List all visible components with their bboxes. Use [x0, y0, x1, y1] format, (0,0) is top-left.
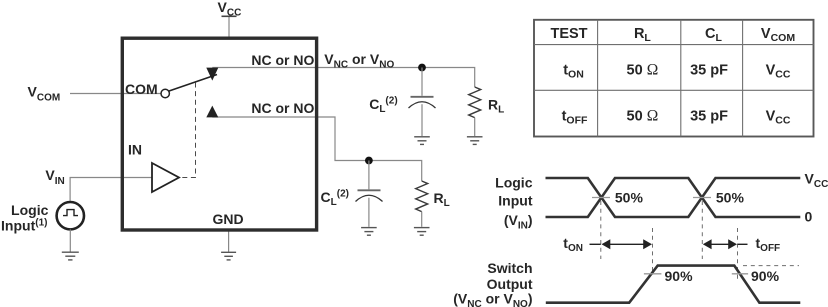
junction node top: [418, 64, 426, 72]
svg-text:90%: 90%: [665, 268, 694, 284]
switch output waveform: [546, 266, 801, 303]
resistor RL upper: [469, 87, 481, 118]
svg-text:35 pF: 35 pF: [690, 63, 728, 79]
wire source to ground: [69, 229, 71, 251]
svg-text:Logic: Logic: [495, 175, 533, 191]
svg-text:50%: 50%: [716, 189, 745, 205]
svg-text:(VNC or VNO): (VNC or VNO): [453, 291, 532, 307]
wire VIN to buffer: [70, 178, 152, 201]
logic input waveform line B: [546, 178, 801, 217]
svg-text:RL: RL: [434, 190, 450, 209]
NO contact triangle: [206, 106, 218, 118]
wire VCOM to COM pin: [70, 93, 161, 95]
svg-text:VIN: VIN: [45, 167, 64, 187]
table column dividers: [598, 20, 743, 137]
svg-text:tON: tON: [563, 235, 583, 254]
90% tick fall: [732, 273, 748, 275]
svg-text:CL(2): CL(2): [369, 96, 397, 116]
svg-text:VCC: VCC: [766, 63, 791, 81]
capacitor CL lower wire: [368, 161, 370, 190]
buffer amplifier: [152, 163, 179, 192]
svg-text:IN: IN: [128, 142, 142, 158]
svg-text:VCC: VCC: [218, 0, 242, 19]
NC contact triangle: [206, 68, 218, 81]
svg-text:tOFF: tOFF: [562, 108, 588, 126]
svg-text:Input: Input: [498, 193, 533, 209]
svg-text:CL: CL: [705, 26, 722, 44]
dashed line tOFF end: [737, 228, 739, 279]
svg-text:50 Ω: 50 Ω: [627, 62, 659, 79]
dashed line tON end: [652, 228, 654, 275]
junction node bottom: [365, 157, 373, 165]
svg-text:0: 0: [805, 208, 813, 224]
dashed line crossing2: [701, 201, 703, 259]
svg-text:tON: tON: [563, 63, 584, 81]
svg-text:(VIN): (VIN): [504, 212, 533, 232]
tOFF leader: [738, 243, 748, 245]
ground under upper RL: [467, 137, 483, 145]
crossing tick 2: [693, 197, 711, 199]
capacitor CL upper wire: [421, 68, 423, 96]
ground under lower RL: [414, 228, 430, 236]
tON leader: [590, 243, 601, 245]
tOFF arrow: [708, 243, 732, 245]
svg-text:Output: Output: [487, 276, 533, 292]
svg-text:CL(2): CL(2): [321, 189, 349, 209]
svg-text:VCC: VCC: [766, 108, 791, 126]
90% tick rise: [644, 273, 662, 275]
svg-text:GND: GND: [213, 211, 244, 227]
pulse symbol: [63, 210, 78, 216]
ground under lower CL: [361, 228, 377, 236]
svg-text:VCC: VCC: [805, 170, 828, 190]
wire top NC/NO net: [212, 68, 474, 88]
svg-text:NC or NO: NC or NO: [251, 52, 314, 68]
svg-text:COM: COM: [125, 81, 158, 97]
svg-text:NC or NO: NC or NO: [251, 100, 314, 116]
svg-text:Logic: Logic: [11, 202, 49, 218]
dashed line crossing1: [600, 201, 602, 259]
svg-text:35 pF: 35 pF: [690, 108, 728, 124]
svg-text:tOFF: tOFF: [756, 235, 781, 254]
wire VCC to box: [228, 16, 230, 39]
svg-text:VCOM: VCOM: [28, 84, 61, 104]
svg-text:TEST: TEST: [550, 26, 587, 42]
svg-text:RL: RL: [488, 97, 504, 116]
switch pole circle: [161, 89, 169, 97]
tON arrow: [606, 243, 647, 245]
DUT box: [122, 38, 316, 230]
capacitor CL lower: [358, 189, 381, 191]
dashed control line: [180, 83, 196, 178]
svg-text:RL: RL: [634, 26, 651, 44]
ground under source: [62, 252, 79, 260]
wire GND pin: [228, 230, 230, 252]
dashed high level extension: [743, 265, 799, 267]
wire bottom NC/NO net: [212, 117, 421, 181]
svg-text:50 Ω: 50 Ω: [627, 107, 659, 124]
ground GND pin: [221, 252, 236, 260]
svg-text:50%: 50%: [615, 189, 644, 205]
ground under upper CL: [414, 137, 430, 145]
resistor RL lower: [416, 181, 428, 212]
logic input source: [57, 202, 84, 229]
svg-text:VCOM: VCOM: [761, 26, 795, 44]
switch arm: [168, 75, 217, 92]
svg-text:Input(1): Input(1): [1, 217, 47, 233]
VCC rail bar: [222, 15, 237, 17]
crossing tick 1: [592, 197, 610, 199]
svg-text:Switch: Switch: [487, 260, 532, 276]
capacitor CL upper: [411, 96, 434, 98]
svg-text:90%: 90%: [751, 268, 780, 284]
test conditions table frame: [534, 20, 814, 137]
logic input waveform line A: [546, 178, 801, 217]
table row dividers: [534, 45, 814, 91]
